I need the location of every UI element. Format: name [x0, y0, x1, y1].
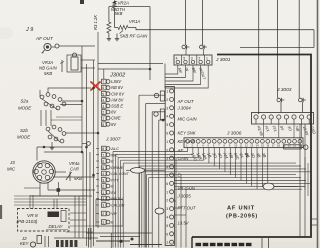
svg-text:2: 2	[102, 185, 104, 189]
svg-text:5KB: 5KB	[44, 71, 52, 76]
svg-text:VR2A: VR2A	[118, 1, 130, 6]
svg-text:E: E	[111, 159, 114, 164]
svg-text:3: 3	[166, 207, 168, 211]
svg-text:2: 2	[102, 212, 104, 216]
svg-text:5: 5	[102, 92, 104, 96]
svg-text:E: E	[111, 220, 114, 225]
svg-text:S2b: S2b	[20, 128, 28, 133]
svg-text:(PB-2095): (PB-2095)	[226, 214, 258, 220]
svg-text:3: 3	[102, 105, 104, 109]
svg-text:J 3005: J 3005	[177, 194, 192, 199]
svg-text:3: 3	[102, 204, 104, 208]
svg-text:2: 2	[102, 111, 104, 115]
svg-text:1: 1	[166, 241, 168, 245]
svg-text:VR3A: VR3A	[42, 60, 53, 65]
svg-text:J3002: J3002	[109, 73, 126, 79]
svg-text:AF OUT: AF OUT	[177, 99, 194, 104]
svg-text:4: 4	[166, 115, 168, 119]
svg-text:6: 6	[102, 86, 104, 90]
svg-text:S2a: S2a	[21, 99, 29, 104]
svg-text:MIC GAIN: MIC GAIN	[178, 117, 198, 122]
svg-text:8: 8	[102, 123, 104, 127]
svg-text:4: 4	[166, 216, 168, 220]
svg-text:3: 3	[166, 106, 168, 110]
svg-text:KEY SNK: KEY SNK	[178, 131, 196, 136]
svg-text:7: 7	[102, 153, 104, 157]
svg-text:VR4a: VR4a	[69, 161, 80, 166]
svg-text:5KB RF GAIN: 5KB RF GAIN	[120, 34, 148, 39]
svg-text:J 9: J 9	[25, 27, 33, 33]
svg-text:2: 2	[166, 98, 168, 102]
svg-text:5KB: 5KB	[115, 11, 123, 16]
svg-text:2: 2	[166, 199, 168, 203]
svg-text:3: 3	[102, 197, 104, 201]
svg-text:(PB-2103): (PB-2103)	[17, 219, 38, 224]
svg-text:AF OUT: AF OUT	[35, 36, 54, 41]
svg-text:VR1A: VR1A	[129, 19, 141, 24]
svg-text:MODE: MODE	[17, 135, 30, 140]
svg-text:5: 5	[166, 224, 168, 228]
svg-text:LS8V: LS8V	[111, 79, 122, 84]
svg-text:R3 1.2K: R3 1.2K	[93, 15, 98, 30]
svg-text:J 3001: J 3001	[215, 57, 231, 63]
svg-text:MIC: MIC	[7, 167, 16, 172]
svg-text:1: 1	[102, 117, 104, 121]
svg-text:1: 1	[102, 191, 104, 195]
svg-text:13.5V: 13.5V	[178, 221, 190, 226]
svg-text:1: 1	[166, 90, 168, 94]
svg-text:NB 8V: NB 8V	[111, 85, 124, 90]
svg-text:4: 4	[102, 98, 104, 102]
svg-text:CW 8V: CW 8V	[111, 91, 125, 96]
svg-text:5: 5	[166, 174, 168, 178]
svg-text:AF UNIT: AF UNIT	[227, 206, 255, 212]
svg-text:AM 8V: AM 8V	[110, 97, 125, 102]
svg-text:6: 6	[166, 132, 168, 136]
svg-text:3: 3	[191, 57, 193, 61]
svg-text:SSB E: SSB E	[111, 104, 123, 109]
svg-text:MODE: MODE	[18, 106, 31, 111]
svg-text:3: 3	[102, 178, 104, 182]
svg-text:5: 5	[102, 166, 104, 170]
svg-text:6: 6	[166, 182, 168, 186]
svg-text:J.3004: J.3004	[177, 106, 192, 111]
svg-text:J3: J3	[9, 160, 15, 165]
svg-text:J.3003: J.3003	[276, 87, 292, 93]
svg-text:1: 1	[166, 140, 168, 144]
svg-text:ALC: ALC	[110, 146, 119, 151]
svg-text:CAR: CAR	[70, 167, 79, 172]
svg-text:4: 4	[102, 172, 104, 176]
svg-text:1: 1	[166, 190, 168, 194]
svg-text:VR: VR	[111, 211, 117, 216]
svg-text:J.3007: J.3007	[105, 137, 121, 143]
svg-text:6: 6	[166, 232, 168, 236]
svg-text:KEY: KEY	[20, 241, 30, 246]
svg-text:DELAY: DELAY	[49, 224, 64, 229]
svg-text:AF: AF	[177, 148, 184, 153]
svg-text:VR GAIN: VR GAIN	[178, 186, 196, 191]
svg-text:E: E	[111, 184, 114, 189]
svg-text:1: 1	[206, 57, 208, 61]
svg-text:6: 6	[102, 160, 104, 164]
svg-text:7: 7	[102, 80, 104, 84]
svg-text:NB GAIN: NB GAIN	[39, 66, 58, 71]
svg-text:5: 5	[183, 57, 185, 61]
svg-text:J 3006: J 3006	[226, 131, 242, 137]
svg-text:CWE: CWE	[111, 116, 121, 121]
svg-text:5KB: 5KB	[74, 176, 82, 181]
svg-text:5: 5	[166, 123, 168, 127]
svg-text:2: 2	[198, 57, 200, 61]
svg-text:4: 4	[176, 57, 178, 61]
svg-text:8: 8	[102, 147, 104, 151]
svg-text:1: 1	[102, 221, 104, 225]
svg-text:MIC: MIC	[111, 152, 118, 157]
